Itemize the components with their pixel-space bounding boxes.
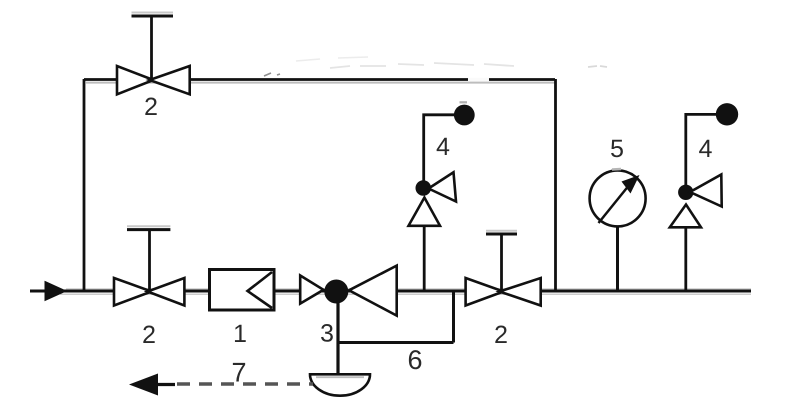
filter 1 body (210, 270, 275, 311)
riser wire to vent valve 4 right (684, 227, 687, 291)
vent valve 4 right ball joint (678, 185, 693, 200)
sensing line 6 horizontal wire (338, 341, 454, 344)
bypass right downcomer wire (554, 79, 557, 291)
valve 2 (main line right) body (466, 278, 541, 306)
label 2 (left valve) (143, 326, 154, 343)
gray tick above left ball (460, 101, 468, 103)
bypass top line gray shadow (86, 82, 556, 84)
inlet arrow (45, 282, 66, 301)
pressure gauge 5 body (590, 169, 646, 226)
vent valve 4 right upper stem wire (686, 114, 717, 186)
gauge 5 stem wire (616, 227, 619, 291)
riser wire to vent valve 4 left (423, 226, 426, 291)
valve 2 (top bypass) body (117, 66, 190, 94)
bypass top wire faded patch (468, 78, 489, 81)
regulator 3 inlet triangle (300, 276, 323, 304)
label 3 (regulator) (321, 324, 333, 342)
main pipe line (30, 290, 751, 293)
diaphragm actuator dome (310, 374, 370, 395)
label 2 (right valve) (495, 326, 506, 343)
valve V2-right stem and handle (486, 231, 517, 292)
vent valve 4 left terminal ball (454, 105, 475, 126)
valve V2-top stem and handle (132, 13, 174, 81)
regulator 3 outlet triangle (349, 266, 397, 316)
vent valve 4 left side triangle (429, 172, 457, 201)
vent valve 4 left upper stem wire (424, 115, 456, 182)
valve 2 (main line left) body (114, 278, 184, 306)
main pipe line gray shadow (66, 288, 751, 290)
label 5 (gauge) (611, 140, 623, 157)
vent valve 4 left lower triangle (409, 198, 441, 226)
label 1 (filter) (235, 325, 246, 342)
vent solid stub wire (156, 383, 175, 386)
vent valve 4 right terminal ball (716, 103, 738, 125)
label 4 (right vent valve) (699, 140, 712, 157)
vent arrow 7 (129, 374, 158, 396)
label 4 (left vent valve) (437, 138, 450, 155)
bypass left riser wire (83, 79, 86, 291)
regulator 3 ball (324, 280, 348, 304)
vent dashed line 7 (177, 382, 313, 385)
sensing line 6 riser wire (452, 291, 455, 343)
regulator diaphragm stem wire (336, 302, 339, 374)
vent valve 4 right side triangle (690, 175, 722, 207)
scan smudge marks (264, 57, 607, 76)
bypass top wire (84, 78, 555, 81)
label 2 (top valve) (145, 98, 156, 115)
label 7 (vent line) (233, 363, 245, 382)
vent valve 4 right lower triangle (670, 205, 701, 228)
vent valve 4 left ball joint (416, 180, 432, 196)
valve V2-left stem and handle (127, 226, 170, 291)
gray shadow under dome top (316, 376, 364, 378)
label 6 (sensing line) (409, 350, 421, 369)
